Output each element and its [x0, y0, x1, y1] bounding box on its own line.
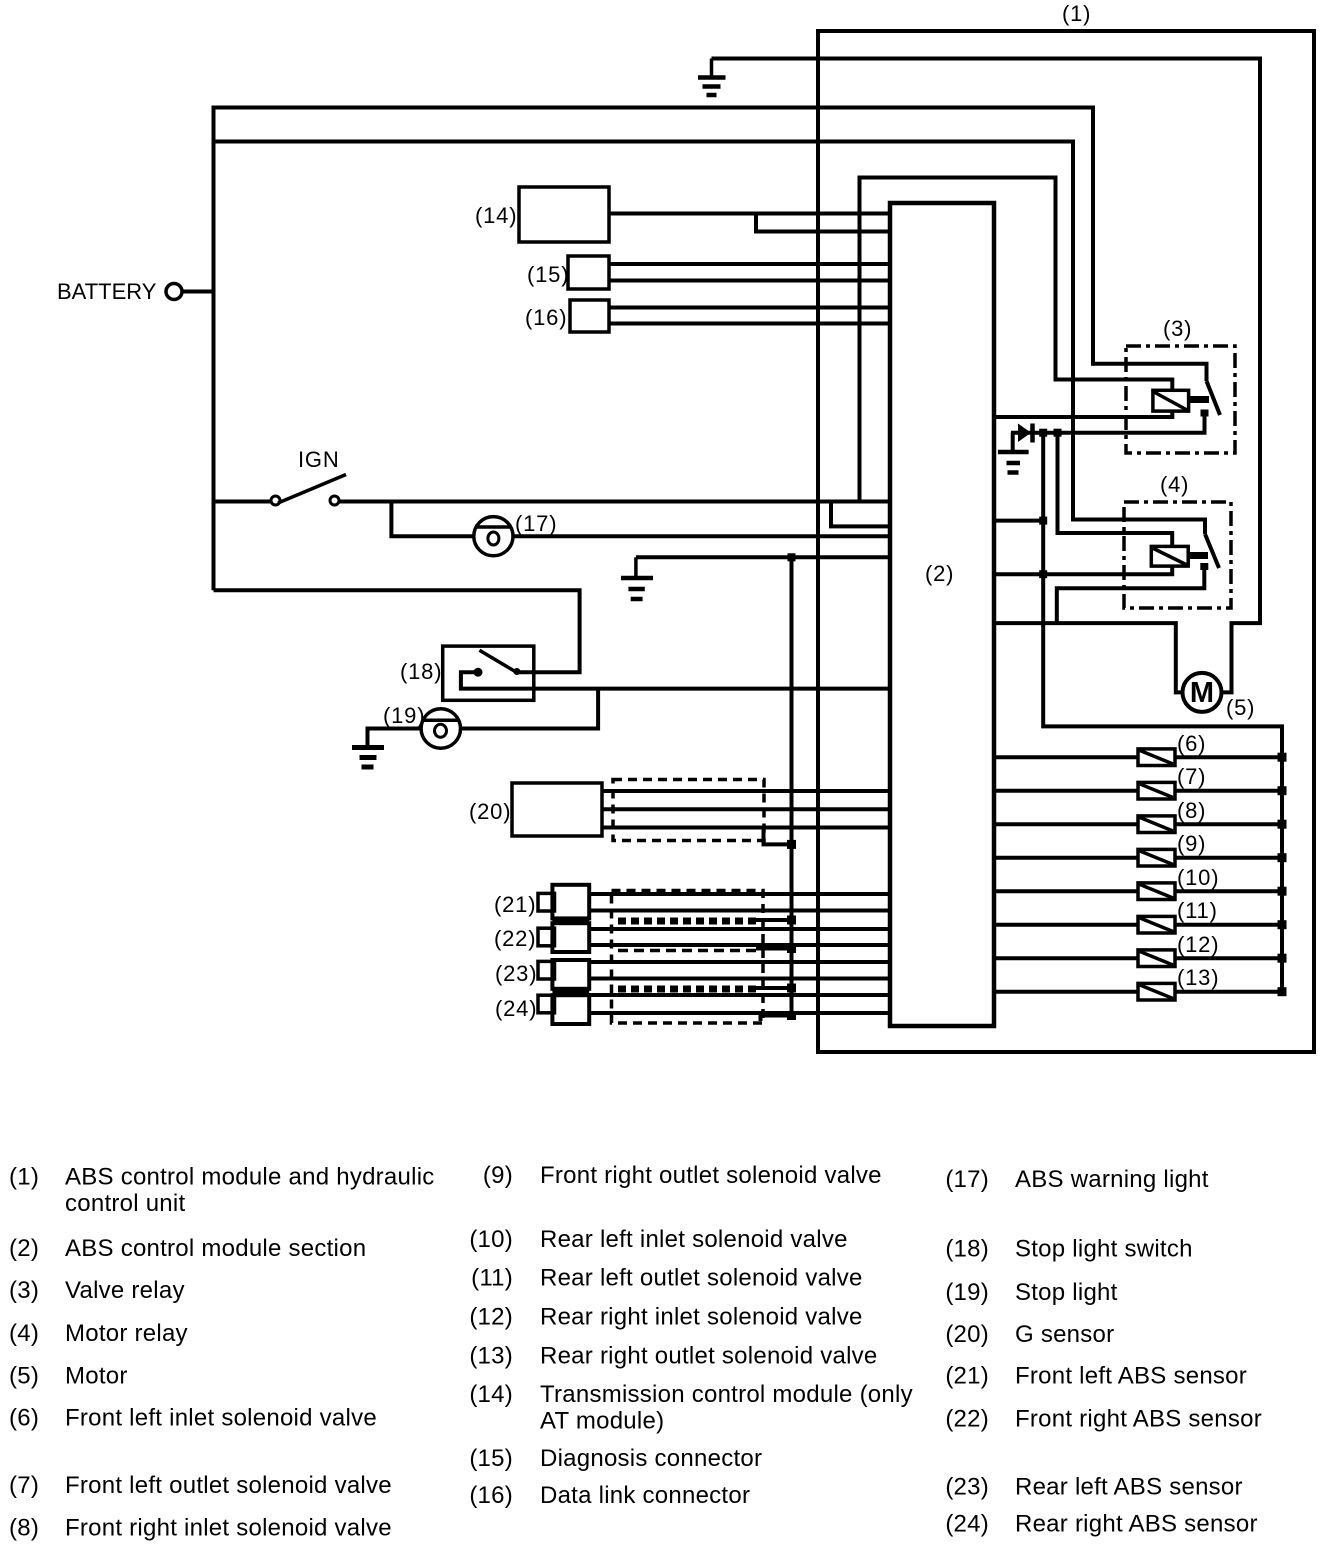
- wire warning lamp to module: [513, 534, 890, 538]
- svg-text:(3): (3): [9, 1277, 39, 1304]
- wire ignition to relay coil riser: [860, 178, 1173, 502]
- svg-text:(15): (15): [469, 1445, 513, 1472]
- box U4 (20) G sensor: [512, 783, 602, 836]
- wire chassis ground top rail: [712, 59, 1261, 693]
- switch SW1 IGN blade: [278, 475, 346, 504]
- wire valve relay output to solenoid bus: [1043, 433, 1282, 992]
- motor M1 (5): [1183, 673, 1222, 712]
- sensor S22 (22) front right ABS sensor: [538, 923, 890, 952]
- wire diagnosis connector line 1: [609, 262, 890, 266]
- svg-text:(13): (13): [1177, 965, 1219, 990]
- ground G3 module ground: [621, 557, 653, 599]
- svg-text:(15): (15): [527, 262, 569, 287]
- svg-text:(20): (20): [469, 799, 511, 824]
- svg-text:Front left outlet solenoid val: Front left outlet solenoid valve: [65, 1472, 392, 1499]
- solenoid valve V6 (6) front left inlet: [994, 749, 1287, 766]
- wire TCM to module: [609, 212, 890, 216]
- relay K2 coil: [1151, 546, 1188, 566]
- wire relay4 contact feed: [1071, 520, 1205, 535]
- svg-text:(7): (7): [9, 1472, 39, 1499]
- box U3 (14) transmission control module: [519, 187, 609, 242]
- svg-text:(14): (14): [475, 203, 517, 228]
- svg-text:Front right outlet solenoid va: Front right outlet solenoid valve: [540, 1162, 882, 1189]
- svg-text:(21): (21): [945, 1363, 989, 1390]
- wire ignition feed to module: [339, 500, 890, 504]
- svg-text:Rear left outlet solenoid valv: Rear left outlet solenoid valve: [540, 1265, 863, 1292]
- svg-text:Rear left inlet solenoid valve: Rear left inlet solenoid valve: [540, 1226, 848, 1253]
- wire battery rail top 1: [214, 108, 1094, 366]
- wire relay K1 coil bottom to module: [994, 411, 1172, 417]
- svg-text:Data link connector: Data link connector: [540, 1482, 750, 1509]
- lamp L2 (19) stop light: [421, 709, 460, 748]
- box U2 (2) ABS control module section: [890, 203, 994, 1026]
- box J2 (16) data link connector: [570, 300, 609, 332]
- wire diagnosis connector line 2: [609, 279, 890, 283]
- shield box G sensor cable: [613, 780, 764, 841]
- svg-text:(5): (5): [9, 1363, 39, 1390]
- svg-text:(1): (1): [9, 1164, 39, 1191]
- wire G sensor line 2: [602, 807, 890, 811]
- svg-text:M: M: [1190, 677, 1214, 709]
- svg-text:(1): (1): [1062, 1, 1091, 26]
- svg-text:(10): (10): [1177, 865, 1219, 890]
- shield box ABS sensor cables: [612, 891, 764, 1024]
- shield S23 cable shield: [618, 984, 796, 993]
- wire module to motor: [994, 623, 1183, 692]
- sensor S21 (21) front left ABS sensor: [538, 885, 890, 919]
- relay K1 blade: [1207, 381, 1221, 415]
- shield S24 cable shield drain: [761, 1011, 797, 1021]
- wire battery left rail: [212, 106, 216, 591]
- svg-text:(18): (18): [400, 659, 442, 684]
- svg-text:(17): (17): [515, 511, 557, 536]
- svg-text:(9): (9): [483, 1162, 513, 1189]
- wire stop lamp to ground: [368, 729, 422, 747]
- solenoid valve V12 (12) rear right inlet: [994, 950, 1287, 967]
- svg-text:(22): (22): [494, 926, 536, 951]
- switch SW2 fixed contact dot: [474, 668, 483, 677]
- svg-text:Rear right inlet solenoid valv: Rear right inlet solenoid valve: [540, 1304, 863, 1331]
- box J1 (15) diagnosis connector: [568, 256, 609, 289]
- wire diode to ground: [1011, 433, 1015, 451]
- node junction motor relay coil feed: [1054, 429, 1062, 437]
- relay K2 lower contact pad: [1200, 563, 1208, 570]
- solenoid valve V8 (8) front right inlet: [994, 816, 1287, 833]
- ground G2 diode ground: [998, 452, 1029, 473]
- switch SW1 IGN contact right: [330, 496, 339, 505]
- svg-text:AT module): AT module): [540, 1408, 664, 1435]
- wire G sensor shield drain: [764, 829, 792, 844]
- svg-text:Transmission control module (o: Transmission control module (only: [540, 1381, 913, 1408]
- svg-text:(8): (8): [9, 1515, 39, 1542]
- svg-text:Rear left ABS sensor: Rear left ABS sensor: [1015, 1474, 1243, 1501]
- svg-text:(23): (23): [495, 961, 537, 986]
- svg-text:(6): (6): [9, 1405, 39, 1432]
- relay K2 (4) motor relay box: [1124, 502, 1231, 608]
- svg-text:(19): (19): [945, 1279, 989, 1306]
- svg-text:(7): (7): [1177, 764, 1206, 789]
- svg-text:ABS control module section: ABS control module section: [65, 1235, 366, 1262]
- svg-text:(23): (23): [945, 1474, 989, 1501]
- diode D1: [1018, 424, 1033, 443]
- svg-text:Motor relay: Motor relay: [65, 1320, 188, 1347]
- svg-text:(20): (20): [945, 1321, 989, 1348]
- svg-text:(5): (5): [1226, 695, 1255, 720]
- svg-text:Stop light switch: Stop light switch: [1015, 1236, 1193, 1263]
- wire relay K2 coil feed: [1058, 433, 1173, 547]
- wire stop light switch feed: [214, 590, 580, 672]
- svg-text:(21): (21): [494, 892, 536, 917]
- svg-text:Front right inlet solenoid val: Front right inlet solenoid valve: [65, 1515, 392, 1542]
- wire G sensor line 1: [602, 789, 890, 793]
- svg-text:ABS control module and hydraul: ABS control module and hydraulic: [65, 1164, 435, 1191]
- switch SW1 IGN contact left: [271, 496, 280, 505]
- svg-text:(2): (2): [9, 1235, 39, 1262]
- svg-text:(24): (24): [945, 1511, 989, 1538]
- legend: [9, 1162, 1262, 1542]
- svg-text:(16): (16): [525, 305, 567, 330]
- wire G sensor line 3: [602, 826, 890, 830]
- wire warning lamp branch: [391, 502, 473, 537]
- sensor S24 (24) rear right ABS sensor: [538, 995, 890, 1024]
- wire battery rail top 2: [214, 142, 1074, 520]
- battery BT1 terminal circle: [166, 284, 182, 300]
- svg-text:(14): (14): [469, 1381, 513, 1408]
- svg-text:(10): (10): [469, 1226, 513, 1253]
- svg-text:Rear right outlet solenoid val: Rear right outlet solenoid valve: [540, 1343, 878, 1370]
- svg-text:(4): (4): [1160, 472, 1189, 497]
- svg-text:ABS warning light: ABS warning light: [1015, 1166, 1209, 1193]
- relay K1 lower contact pad: [1201, 410, 1209, 417]
- wire battery to rail: [182, 290, 214, 294]
- svg-text:Front left inlet solenoid valv: Front left inlet solenoid valve: [65, 1405, 377, 1432]
- svg-text:Valve relay: Valve relay: [65, 1277, 185, 1304]
- wire module sense of valve relay output: [994, 519, 1043, 523]
- svg-text:(3): (3): [1163, 316, 1192, 341]
- svg-text:G sensor: G sensor: [1015, 1321, 1114, 1348]
- svg-text:Stop light: Stop light: [1015, 1279, 1118, 1306]
- wire TCM jog: [756, 214, 890, 232]
- node G sensor shield junction: [787, 840, 796, 849]
- relay K1 armature link: [1189, 396, 1209, 403]
- node junction valve relay output: [1039, 429, 1047, 437]
- svg-text:(11): (11): [471, 1265, 513, 1292]
- svg-text:(17): (17): [945, 1166, 989, 1193]
- wire stop light switch output: [461, 672, 890, 688]
- wire data link line 2: [609, 322, 890, 326]
- wire ignition branch pin 2: [831, 503, 890, 526]
- relay K2 armature link: [1188, 552, 1208, 559]
- svg-text:Motor: Motor: [65, 1363, 128, 1390]
- lamp L1 (17) ABS warning light: [474, 517, 513, 556]
- wire stop lamp branch: [460, 689, 598, 729]
- relay K1 (3) valve relay box: [1126, 346, 1235, 453]
- svg-text:(18): (18): [945, 1236, 989, 1263]
- solenoid valve V11 (11) rear left outlet: [994, 916, 1287, 933]
- relay K2 blade: [1205, 534, 1219, 568]
- sensor S23 (23) rear left ABS sensor: [538, 960, 890, 989]
- relay K1 coil: [1153, 390, 1189, 411]
- svg-text:(24): (24): [495, 996, 537, 1021]
- svg-text:(12): (12): [469, 1304, 513, 1331]
- svg-text:(11): (11): [1177, 898, 1218, 923]
- svg-text:Diagnosis connector: Diagnosis connector: [540, 1445, 762, 1472]
- svg-text:Front left ABS sensor: Front left ABS sensor: [1015, 1363, 1247, 1390]
- wire module ground: [636, 555, 890, 559]
- node junction sense wire: [1039, 517, 1047, 525]
- switch SW2 (18) stop light switch box: [443, 646, 534, 700]
- svg-text:(16): (16): [469, 1482, 513, 1509]
- svg-text:(12): (12): [1177, 932, 1219, 957]
- node junction bus crossing coil wire: [1039, 570, 1047, 578]
- wire relay K1 contact output: [1011, 416, 1205, 433]
- svg-text:control unit: control unit: [65, 1190, 185, 1217]
- svg-text:Rear right ABS sensor: Rear right ABS sensor: [1015, 1511, 1258, 1538]
- svg-text:Front right ABS sensor: Front right ABS sensor: [1015, 1406, 1262, 1433]
- ground G4 stop lamp ground: [352, 748, 384, 768]
- shield S21 cable shield: [618, 916, 796, 925]
- solenoid valve V7 (7) front left outlet: [994, 782, 1287, 799]
- wire ignition feed left: [214, 500, 272, 504]
- shield S22 cable shield: [618, 944, 796, 953]
- svg-text:(8): (8): [1177, 798, 1206, 823]
- svg-text:(19): (19): [383, 703, 425, 728]
- solenoid valve V13 (13) rear right outlet: [994, 983, 1287, 1000]
- svg-text:(2): (2): [925, 561, 954, 586]
- ground G1 top chassis ground: [698, 59, 726, 96]
- node shield rail to module ground junction: [788, 553, 796, 561]
- switch SW2 pivot dot: [513, 668, 520, 675]
- svg-text:(22): (22): [945, 1406, 989, 1433]
- wire relay3 contact feed: [1093, 364, 1207, 381]
- svg-text:IGN: IGN: [298, 447, 340, 472]
- outer box U1 (1) ABS control module and hydraulic control unit: [818, 31, 1314, 1052]
- solenoid valve V10 (10) rear left inlet: [994, 883, 1287, 900]
- wire relay K2 contact output to motor: [1057, 569, 1205, 623]
- diagram labels: [57, 1, 1255, 1021]
- wire data link line 1: [609, 306, 890, 310]
- connector gap fill S23-S24: [552, 988, 589, 996]
- svg-text:(9): (9): [1177, 831, 1206, 856]
- svg-text:(13): (13): [469, 1343, 513, 1370]
- solenoid valve V9 (9) front right outlet: [994, 849, 1287, 866]
- switch SW2 blade: [479, 650, 517, 673]
- svg-text:BATTERY: BATTERY: [57, 279, 157, 304]
- connector gap fill S21-S22: [552, 917, 589, 924]
- wire relay K2 coil bottom to module: [994, 566, 1172, 574]
- svg-text:(4): (4): [9, 1320, 39, 1347]
- svg-text:(6): (6): [1177, 731, 1206, 756]
- wire shield ground rail: [790, 557, 794, 1015]
